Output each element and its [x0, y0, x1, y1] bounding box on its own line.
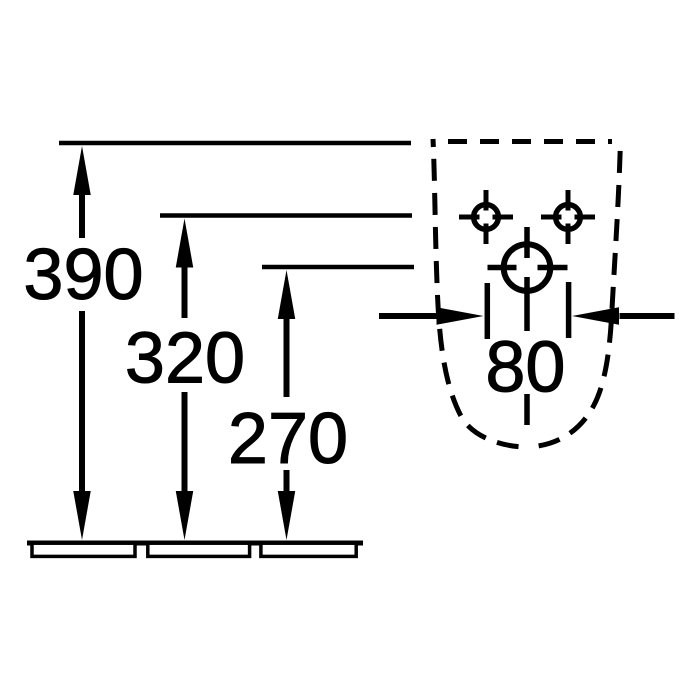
dimension 390 up arrow [73, 146, 91, 195]
80 dim left arrowhead [437, 307, 484, 325]
reference line lower (270 level) [262, 265, 414, 270]
mounting hole left cross arms [459, 190, 513, 244]
drain centerline lower dash [524, 394, 530, 425]
mounting hole right cross arms [541, 190, 595, 244]
fixture outline left side dashed [433, 139, 527, 447]
dimension 270 line lower segment [284, 470, 290, 494]
fixture outline right side dashed [527, 139, 621, 447]
fixture top edge dashed [431, 139, 612, 144]
dimension 270 line upper segment [284, 317, 290, 397]
80 dim left arrow line [379, 313, 441, 319]
dimension 320 up arrow [176, 219, 194, 268]
reference line middle (320 level) [160, 213, 412, 218]
ground line [27, 541, 363, 546]
dimension 390 line upper segment [79, 193, 85, 238]
80 dim right arrowhead [572, 307, 619, 325]
svg-text:320: 320 [125, 319, 245, 399]
80 dim extension line right [566, 282, 572, 338]
floor tile 1 [32, 543, 135, 556]
floor tile 3 [261, 543, 356, 556]
mounting hole left ring [474, 205, 499, 230]
svg-text:80: 80 [485, 328, 565, 408]
dimension 270 down arrow [278, 491, 296, 540]
dimension 320 down arrow [176, 491, 194, 540]
svg-text:270: 270 [228, 399, 348, 479]
dimension 390 down arrow [73, 491, 91, 540]
dimension 390 line lower segment [79, 311, 85, 494]
dimension 270 up arrow [278, 270, 296, 319]
svg-text:390: 390 [23, 235, 143, 315]
drain circle ring [504, 244, 551, 291]
80 dim extension line left [485, 283, 491, 339]
mounting hole right ring [556, 205, 581, 230]
reference line top (390 level) [59, 141, 411, 146]
drain circle cross arms [488, 227, 568, 331]
80 dim right arrow line [620, 313, 675, 319]
dimension 320 line upper segment [182, 265, 188, 318]
dimension 320 line lower segment [182, 392, 188, 494]
floor tile 2 [148, 543, 250, 556]
